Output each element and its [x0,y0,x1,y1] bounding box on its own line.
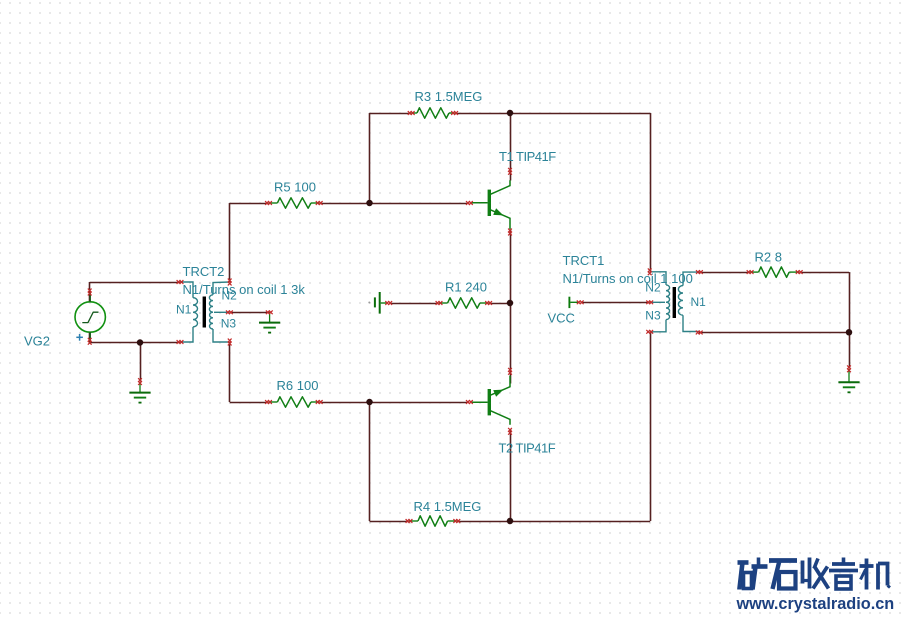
svg-text:N1: N1 [691,295,707,309]
svg-text:www.crystalradio.cn: www.crystalradio.cn [736,595,895,613]
svg-text:R4 1.5MEG: R4 1.5MEG [414,499,482,514]
svg-text:VG2: VG2 [24,334,50,349]
svg-text:TRCT2: TRCT2 [183,264,225,279]
svg-text:N2: N2 [645,281,661,295]
svg-text:N1/Turns on coil 1 3k: N1/Turns on coil 1 3k [183,282,306,297]
svg-text:VCC: VCC [548,311,575,326]
svg-text:R6 100: R6 100 [277,378,319,393]
svg-text:R3 1.5MEG: R3 1.5MEG [415,89,483,104]
svg-text:TRCT1: TRCT1 [563,253,605,268]
svg-text:R1 240: R1 240 [445,280,487,295]
svg-text:R5 100: R5 100 [274,180,316,195]
svg-text:N3: N3 [221,317,237,331]
svg-text:N2: N2 [222,289,238,303]
svg-text:N3: N3 [645,309,661,323]
svg-text:N1: N1 [176,303,192,317]
svg-text:T1 TIP41F: T1 TIP41F [499,149,556,164]
svg-text:R2 8: R2 8 [755,250,782,265]
svg-text:T2 TIP41F: T2 TIP41F [499,441,556,456]
svg-text:N1/Turns on coil 1 100: N1/Turns on coil 1 100 [563,271,693,286]
